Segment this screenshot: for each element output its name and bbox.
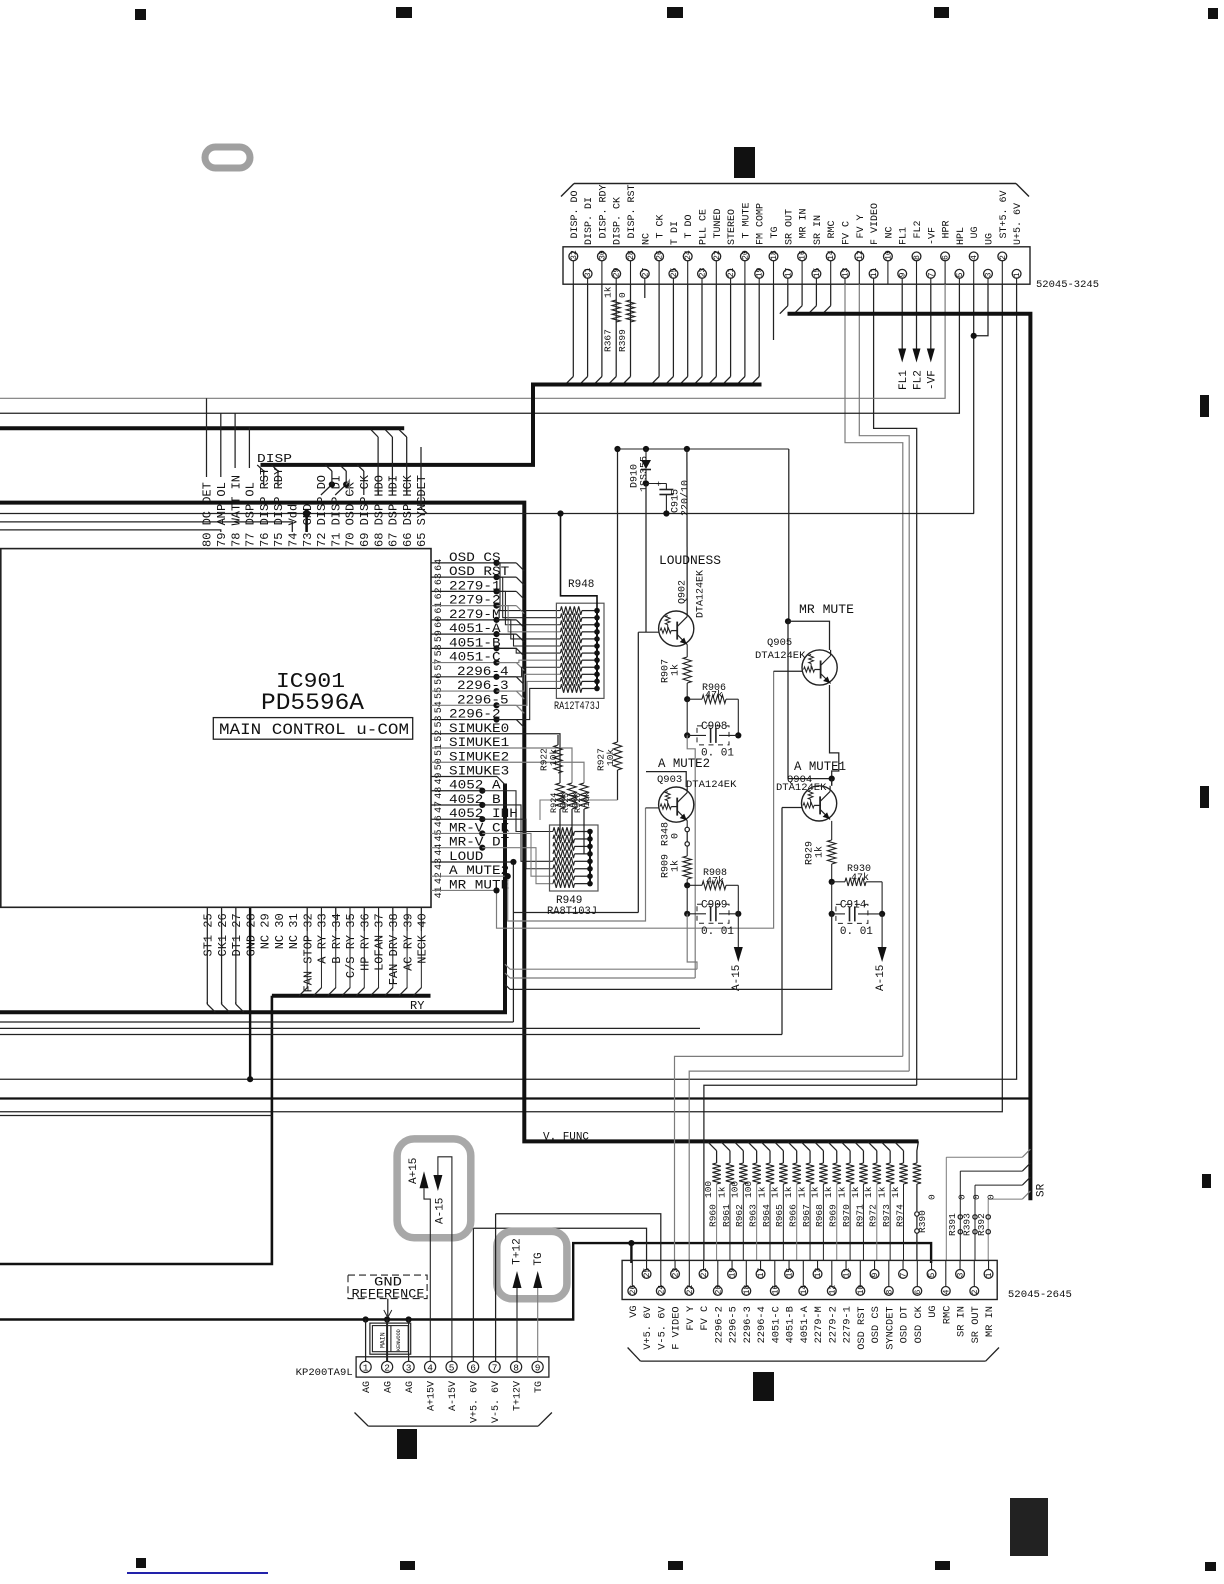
- svg-text:NC: NC: [884, 226, 895, 238]
- svg-text:61: 61: [434, 602, 445, 614]
- svg-text:21: 21: [700, 1268, 709, 1278]
- svg-text:SR OUT: SR OUT: [970, 1306, 982, 1343]
- svg-text:TUNED: TUNED: [713, 208, 724, 238]
- svg-text:R390: R390: [917, 1210, 928, 1233]
- svg-text:V-5. 6V: V-5. 6V: [656, 1306, 668, 1350]
- svg-text:R972: R972: [868, 1204, 879, 1227]
- svg-text:R963: R963: [747, 1204, 758, 1227]
- svg-text:100: 100: [743, 1181, 754, 1198]
- svg-text:ST1 25: ST1 25: [202, 913, 216, 956]
- svg-text:17: 17: [757, 1268, 766, 1278]
- svg-text:LOUDNESS: LOUDNESS: [659, 554, 721, 568]
- svg-text:2279-M: 2279-M: [813, 1306, 825, 1343]
- svg-text:52045-2645: 52045-2645: [1008, 1289, 1072, 1301]
- svg-text:C908: C908: [701, 721, 727, 733]
- svg-text:10k: 10k: [548, 749, 559, 766]
- svg-text:LOFAN 37: LOFAN 37: [373, 913, 387, 971]
- svg-text:8: 8: [513, 1362, 519, 1373]
- svg-text:R965: R965: [774, 1204, 785, 1227]
- svg-text:1k: 1k: [810, 1186, 821, 1198]
- svg-text:1: 1: [1013, 272, 1022, 277]
- svg-text:4051-B: 4051-B: [785, 1306, 797, 1343]
- svg-text:OSD RST: OSD RST: [856, 1306, 868, 1349]
- svg-text:3: 3: [957, 1273, 966, 1278]
- svg-text:T DO: T DO: [684, 214, 695, 238]
- svg-text:23: 23: [672, 1268, 681, 1278]
- svg-text:RMC: RMC: [827, 220, 838, 238]
- svg-text:1k: 1k: [716, 1186, 727, 1198]
- svg-text:Q902: Q902: [678, 580, 689, 604]
- svg-text:1k: 1k: [796, 1186, 807, 1198]
- svg-text:19: 19: [756, 267, 765, 277]
- svg-text:-VF: -VF: [927, 370, 939, 390]
- svg-text:DT1 27: DT1 27: [230, 913, 244, 956]
- svg-text:R393: R393: [962, 1213, 973, 1236]
- svg-text:220/10: 220/10: [680, 480, 692, 516]
- svg-text:C/S RY 35: C/S RY 35: [344, 913, 358, 978]
- svg-text:T MUTE: T MUTE: [741, 202, 752, 238]
- svg-text:C909: C909: [701, 899, 727, 911]
- svg-text:R964: R964: [761, 1204, 772, 1227]
- svg-text:3: 3: [984, 272, 993, 277]
- svg-text:26: 26: [656, 250, 665, 260]
- svg-text:UG: UG: [970, 226, 981, 238]
- svg-text:4051-C: 4051-C: [770, 1306, 782, 1343]
- svg-text:45: 45: [434, 829, 445, 841]
- svg-text:R973: R973: [881, 1204, 892, 1227]
- svg-text:41: 41: [434, 886, 445, 898]
- svg-text:6: 6: [470, 1362, 476, 1373]
- svg-text:77 DSP OL: 77 DSP OL: [244, 482, 258, 547]
- svg-text:FAN DRV 38: FAN DRV 38: [387, 913, 401, 985]
- svg-text:R971: R971: [854, 1204, 865, 1227]
- svg-text:47: 47: [434, 801, 445, 813]
- svg-text:1k: 1k: [876, 1186, 887, 1198]
- svg-text:GND 28: GND 28: [244, 913, 258, 956]
- svg-text:DTA124EK: DTA124EK: [686, 779, 737, 791]
- svg-text:CK1 26: CK1 26: [216, 913, 230, 956]
- svg-text:HP RY 36: HP RY 36: [358, 913, 372, 971]
- svg-text:R392: R392: [976, 1213, 987, 1236]
- svg-text:5: 5: [956, 272, 965, 277]
- svg-text:100: 100: [730, 1181, 741, 1198]
- svg-text:26: 26: [629, 1285, 638, 1295]
- svg-text:A-15: A-15: [875, 965, 887, 991]
- svg-text:NC: NC: [641, 233, 652, 245]
- svg-text:8: 8: [913, 255, 922, 260]
- svg-text:TG: TG: [534, 1381, 545, 1393]
- svg-text:21: 21: [727, 267, 736, 277]
- svg-text:52: 52: [434, 730, 445, 742]
- svg-text:KENWOOD: KENWOOD: [396, 1329, 402, 1351]
- svg-text:68 DSP HDO: 68 DSP HDO: [372, 475, 386, 547]
- svg-text:UG: UG: [985, 233, 996, 245]
- svg-text:SR: SR: [1035, 1183, 1047, 1197]
- svg-text:R367: R367: [603, 329, 614, 352]
- svg-text:OSD CS: OSD CS: [870, 1306, 882, 1343]
- svg-text:25: 25: [670, 267, 679, 277]
- svg-text:5: 5: [449, 1362, 455, 1373]
- svg-text:2279-1: 2279-1: [842, 1306, 854, 1343]
- svg-text:1k: 1k: [770, 1186, 781, 1198]
- svg-text:HPL: HPL: [956, 227, 967, 245]
- svg-text:STEREO: STEREO: [727, 209, 738, 245]
- svg-text:4: 4: [942, 1290, 951, 1295]
- svg-text:F VIDEO: F VIDEO: [870, 203, 881, 245]
- svg-text:+: +: [656, 480, 661, 490]
- svg-text:TG: TG: [533, 1252, 545, 1265]
- svg-text:2: 2: [384, 1362, 390, 1373]
- svg-text:0. 01: 0. 01: [840, 926, 873, 938]
- svg-text:18: 18: [743, 1285, 752, 1295]
- svg-text:53: 53: [434, 716, 445, 728]
- svg-text:1k: 1k: [783, 1186, 794, 1198]
- svg-text:KP200TA9L: KP200TA9L: [296, 1367, 353, 1379]
- svg-text:Q903: Q903: [657, 774, 682, 786]
- svg-text:79 AMP OL: 79 AMP OL: [215, 482, 229, 547]
- svg-text:44: 44: [434, 844, 445, 856]
- svg-text:28: 28: [627, 250, 636, 260]
- svg-text:SR IN: SR IN: [956, 1306, 968, 1337]
- svg-text:0. 01: 0. 01: [701, 926, 734, 938]
- svg-text:SYNCDET: SYNCDET: [884, 1306, 896, 1349]
- svg-text:24: 24: [684, 250, 693, 260]
- svg-text:11: 11: [843, 1268, 852, 1278]
- svg-text:A-15V: A-15V: [448, 1381, 459, 1411]
- svg-text:22: 22: [686, 1285, 695, 1295]
- svg-text:1k: 1k: [850, 1186, 861, 1198]
- svg-text:MAIN: MAIN: [379, 1332, 386, 1348]
- svg-text:A RY 33: A RY 33: [316, 913, 330, 963]
- svg-text:74 Vdd: 74 Vdd: [287, 504, 301, 547]
- svg-text:1k: 1k: [756, 1186, 767, 1198]
- svg-text:1k: 1k: [603, 286, 614, 298]
- svg-text:54: 54: [434, 701, 445, 713]
- svg-text:2: 2: [999, 255, 1008, 260]
- svg-text:R962: R962: [734, 1204, 745, 1227]
- svg-text:FL1: FL1: [899, 227, 910, 245]
- svg-text:U+5. 6V: U+5. 6V: [1013, 203, 1024, 245]
- svg-text:27: 27: [641, 267, 650, 277]
- svg-text:7: 7: [900, 1273, 909, 1278]
- svg-text:4: 4: [427, 1362, 433, 1373]
- svg-text:R970: R970: [841, 1204, 852, 1227]
- svg-text:MR IN: MR IN: [799, 208, 810, 238]
- svg-text:FV Y: FV Y: [856, 214, 867, 238]
- svg-text:13: 13: [814, 1268, 823, 1278]
- svg-text:R967: R967: [801, 1204, 812, 1227]
- svg-text:2296-4: 2296-4: [756, 1306, 768, 1343]
- svg-text:29: 29: [613, 267, 622, 277]
- svg-text:FV C: FV C: [699, 1306, 711, 1331]
- svg-text:1: 1: [363, 1362, 369, 1373]
- svg-text:FL2: FL2: [912, 370, 924, 390]
- svg-text:66 DSP HCK: 66 DSP HCK: [401, 474, 415, 547]
- svg-text:2279-2: 2279-2: [827, 1306, 839, 1343]
- svg-text:100: 100: [703, 1181, 714, 1198]
- svg-text:67 DSP HDI: 67 DSP HDI: [387, 475, 401, 547]
- svg-text:MAIN CONTROL u-COM: MAIN CONTROL u-COM: [219, 721, 409, 739]
- svg-text:4: 4: [970, 255, 979, 260]
- svg-text:V+5. 6V: V+5. 6V: [642, 1306, 654, 1350]
- svg-text:R969: R969: [828, 1204, 839, 1227]
- svg-text:1k: 1k: [863, 1186, 874, 1198]
- svg-text:DTA124EK: DTA124EK: [755, 650, 806, 662]
- svg-text:R966: R966: [788, 1204, 799, 1227]
- svg-text:HPR: HPR: [942, 220, 953, 238]
- svg-text:52045-3245: 52045-3245: [1036, 279, 1099, 291]
- svg-text:1: 1: [985, 1273, 994, 1278]
- svg-text:A+15V: A+15V: [427, 1381, 438, 1411]
- svg-text:PD5596A: PD5596A: [261, 690, 364, 716]
- svg-text:6: 6: [914, 1290, 923, 1295]
- svg-text:51: 51: [434, 744, 445, 756]
- svg-text:12: 12: [856, 250, 865, 260]
- svg-text:SR IN: SR IN: [813, 215, 824, 245]
- svg-text:RMC: RMC: [941, 1306, 953, 1325]
- svg-text:7: 7: [492, 1362, 498, 1373]
- svg-text:75 DISP RDY: 75 DISP RDY: [272, 468, 286, 547]
- svg-text:R961: R961: [721, 1204, 732, 1227]
- svg-text:V+5. 6V: V+5. 6V: [470, 1381, 481, 1423]
- svg-text:DISP. DO: DISP. DO: [570, 190, 581, 238]
- svg-text:13: 13: [841, 267, 850, 277]
- svg-text:10k: 10k: [605, 749, 616, 766]
- svg-text:32: 32: [570, 250, 579, 260]
- svg-text:UG: UG: [927, 1305, 939, 1317]
- svg-text:25: 25: [643, 1268, 652, 1278]
- svg-text:TG: TG: [770, 226, 781, 238]
- svg-text:1k: 1k: [823, 1186, 834, 1198]
- svg-text:A MUTE2: A MUTE2: [658, 757, 710, 771]
- svg-text:10: 10: [884, 250, 893, 260]
- svg-text:1k: 1k: [670, 664, 682, 676]
- svg-text:A-15: A-15: [434, 1198, 446, 1224]
- svg-text:2296-2: 2296-2: [713, 1306, 725, 1343]
- svg-text:2: 2: [971, 1290, 980, 1295]
- svg-text:49: 49: [434, 772, 445, 784]
- svg-text:23: 23: [698, 267, 707, 277]
- svg-text:1k: 1k: [836, 1186, 847, 1198]
- svg-text:AG: AG: [384, 1381, 395, 1393]
- svg-text:AC RY 39: AC RY 39: [401, 913, 415, 971]
- svg-text:DISP. RDY: DISP. RDY: [598, 184, 609, 238]
- svg-text:16: 16: [771, 1285, 780, 1295]
- svg-text:58: 58: [434, 644, 445, 656]
- svg-text:9: 9: [899, 272, 908, 277]
- svg-text:10k: 10k: [582, 792, 592, 807]
- svg-text:57: 57: [434, 659, 445, 671]
- svg-text:12: 12: [828, 1285, 837, 1295]
- svg-text:0: 0: [971, 1194, 982, 1200]
- svg-text:72 DISP DO: 72 DISP DO: [315, 475, 329, 547]
- svg-text:24: 24: [657, 1285, 666, 1295]
- svg-text:11: 11: [870, 267, 879, 277]
- svg-text:-VF: -VF: [927, 227, 938, 245]
- svg-text:50: 50: [434, 758, 445, 770]
- svg-text:4051-A: 4051-A: [799, 1306, 811, 1344]
- svg-text:64: 64: [434, 559, 445, 571]
- svg-text:NC 30: NC 30: [273, 913, 287, 949]
- svg-text:T CK: T CK: [656, 214, 667, 238]
- svg-text:18: 18: [770, 250, 779, 260]
- svg-text:62: 62: [434, 587, 445, 599]
- svg-text:1k: 1k: [890, 1186, 901, 1198]
- svg-text:FL2: FL2: [913, 220, 924, 238]
- svg-text:2296-3: 2296-3: [742, 1306, 754, 1343]
- svg-text:R960: R960: [707, 1204, 718, 1227]
- svg-text:8: 8: [885, 1290, 894, 1295]
- svg-text:9: 9: [871, 1273, 880, 1278]
- svg-text:70 OSD CK: 70 OSD CK: [344, 481, 358, 547]
- svg-text:R968: R968: [814, 1204, 825, 1227]
- svg-text:DTA124EK: DTA124EK: [776, 782, 827, 794]
- svg-text:0: 0: [926, 1194, 937, 1200]
- svg-text:3: 3: [406, 1362, 412, 1373]
- svg-text:69 DISP CK: 69 DISP CK: [358, 474, 372, 547]
- svg-text:AG: AG: [362, 1381, 373, 1393]
- svg-text:FV C: FV C: [842, 221, 853, 245]
- svg-text:FL1: FL1: [898, 370, 910, 390]
- svg-text:A MUTE1: A MUTE1: [794, 760, 846, 774]
- svg-text:20: 20: [741, 250, 750, 260]
- svg-text:DISP. CK: DISP. CK: [613, 197, 624, 245]
- svg-text:2296-5: 2296-5: [728, 1306, 740, 1343]
- svg-text:7: 7: [927, 272, 936, 277]
- svg-text:DTA124EK: DTA124EK: [696, 570, 707, 618]
- svg-text:20: 20: [714, 1285, 723, 1295]
- svg-text:43: 43: [434, 858, 445, 870]
- svg-text:6: 6: [942, 255, 951, 260]
- svg-text:14: 14: [827, 250, 836, 260]
- svg-text:1SS355: 1SS355: [640, 456, 651, 492]
- svg-text:76 DISP RST: 76 DISP RST: [258, 468, 272, 547]
- svg-text:SR OUT: SR OUT: [784, 209, 795, 245]
- svg-text:16: 16: [799, 250, 808, 260]
- svg-text:T DI: T DI: [670, 221, 681, 245]
- svg-text:30: 30: [598, 250, 607, 260]
- svg-text:15: 15: [813, 267, 822, 277]
- svg-text:DISP. RST: DISP. RST: [627, 184, 638, 238]
- svg-text:15: 15: [786, 1268, 795, 1278]
- svg-text:ST+5. 6V: ST+5. 6V: [999, 190, 1010, 238]
- svg-text:0: 0: [985, 1194, 996, 1200]
- svg-text:RA8T103J: RA8T103J: [547, 906, 597, 918]
- svg-text:0: 0: [671, 833, 682, 839]
- svg-text:5: 5: [928, 1273, 937, 1278]
- svg-text:60: 60: [434, 616, 445, 628]
- svg-text:17: 17: [784, 267, 793, 277]
- svg-text:10: 10: [857, 1285, 866, 1295]
- svg-text:R399: R399: [617, 329, 628, 352]
- svg-text:47k: 47k: [706, 876, 724, 888]
- svg-text:V. FUNC: V. FUNC: [543, 1132, 589, 1144]
- svg-text:59: 59: [434, 630, 445, 642]
- svg-text:R948: R948: [568, 579, 594, 591]
- svg-text:T+12: T+12: [512, 1238, 524, 1264]
- svg-text:48: 48: [434, 787, 445, 799]
- svg-text:78 WATT IN: 78 WATT IN: [229, 475, 243, 547]
- svg-text:9: 9: [535, 1362, 541, 1373]
- svg-text:R974: R974: [894, 1204, 905, 1227]
- svg-text:FAN STOP 32: FAN STOP 32: [301, 913, 315, 992]
- svg-text:65 SYNCDET: 65 SYNCDET: [415, 475, 429, 547]
- svg-text:47k: 47k: [705, 690, 723, 702]
- svg-text:80 DC DET: 80 DC DET: [201, 482, 215, 547]
- svg-text:RA12T473J: RA12T473J: [554, 701, 600, 713]
- svg-text:63: 63: [434, 573, 445, 585]
- svg-text:55: 55: [434, 687, 445, 699]
- svg-text:FM COMP: FM COMP: [756, 203, 767, 245]
- svg-text:0: 0: [956, 1194, 967, 1200]
- svg-text:NECK 40: NECK 40: [416, 913, 430, 963]
- svg-text:A-15: A-15: [731, 965, 743, 991]
- svg-text:DISP: DISP: [257, 452, 292, 466]
- svg-text:B RY 34: B RY 34: [330, 913, 344, 963]
- svg-text:22: 22: [713, 250, 722, 260]
- svg-text:A+15: A+15: [408, 1158, 420, 1184]
- svg-text:PLL CE: PLL CE: [699, 209, 710, 245]
- svg-text:31: 31: [584, 267, 593, 277]
- svg-text:V-5. 6V: V-5. 6V: [491, 1381, 502, 1423]
- svg-text:DISP. DI: DISP. DI: [584, 197, 595, 245]
- svg-text:MR MUTE: MR MUTE: [799, 602, 854, 617]
- svg-text:FV Y: FV Y: [685, 1305, 697, 1330]
- svg-text:1k: 1k: [670, 860, 682, 872]
- svg-text:0: 0: [617, 292, 628, 298]
- svg-text:C914: C914: [840, 899, 867, 911]
- svg-text:19: 19: [729, 1268, 738, 1278]
- svg-text:OSD CK: OSD CK: [913, 1306, 925, 1344]
- svg-text:VG: VG: [628, 1305, 640, 1317]
- svg-text:F VIDEO: F VIDEO: [671, 1306, 683, 1349]
- svg-text:AG: AG: [405, 1381, 416, 1393]
- svg-text:R391: R391: [947, 1213, 958, 1236]
- svg-text:56: 56: [434, 673, 445, 685]
- svg-text:OSD DT: OSD DT: [899, 1306, 911, 1343]
- svg-text:14: 14: [800, 1285, 809, 1295]
- svg-text:46: 46: [434, 815, 445, 827]
- svg-text:NC 29: NC 29: [259, 913, 273, 949]
- svg-text:1k: 1k: [814, 846, 826, 858]
- svg-text:NC 31: NC 31: [287, 913, 301, 949]
- svg-text:MR IN: MR IN: [984, 1306, 996, 1337]
- svg-text:T+12V: T+12V: [513, 1381, 524, 1411]
- svg-text:42: 42: [434, 872, 445, 884]
